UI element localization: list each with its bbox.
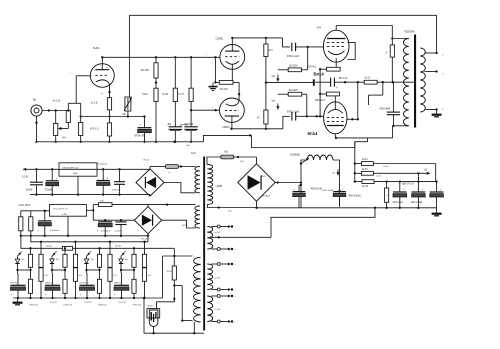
wire bridge right [275,181,301,183]
svg-text:ПФР4-43: ПФР4-43 [98,304,107,307]
diode VD13 cell3 [84,250,91,270]
rail row2 top [21,210,50,212]
svg-text:ПФР4-43: ПФР4-43 [64,304,73,307]
svg-text:ЬСиП: ЬСиП [115,246,121,248]
resistor R42 cell2 [73,241,77,268]
svg-text:4700мкФ: 4700мкФ [50,229,59,232]
capacitor C23 cell2 [45,270,60,299]
label cell2 [50,302,73,306]
label heater 3 [215,309,221,311]
bottom rail [144,332,204,334]
label texture 3 [240,161,245,163]
capacitor C10 filter [293,184,322,208]
svg-text:ФП9-0,1мФ: ФП9-0,1мФ [287,110,299,113]
wire t2 bottom [193,322,195,333]
wire C6 to grid [296,115,324,117]
wire V3 plate node [232,128,283,130]
svg-text:Бп14: Бп14 [314,72,325,77]
terminal row 2 [211,248,233,251]
svg-text:470к: 470к [167,271,171,273]
svg-text:51к: 51к [22,259,25,261]
svg-text:2к-4б: 2к-4б [362,169,368,171]
svg-text:1к: 1к [125,285,127,287]
svg-text:470мкФ: 470мкФ [45,188,53,191]
svg-text:R6-1Мк: R6-1Мк [141,69,150,72]
svg-text:1к-1,8: 1к-1,8 [91,102,98,105]
svg-text:4700мкФ: 4700мкФ [101,230,110,233]
wire tail to V3 cathode [233,82,240,95]
svg-text:2к: 2к [386,51,388,53]
label texture 8 [235,226,237,323]
wire 220V bottom [207,186,256,209]
pot wiper arrow [58,123,68,131]
svg-text:2С10ТК: 2С10ТК [84,302,92,304]
wire aux vert [173,248,175,266]
resistor R28 series [46,246,73,250]
rail row2 bottom [21,235,149,237]
T2 heater winding 3 [207,296,212,322]
resistor R17 cathode [307,67,340,71]
wire right edge down [435,164,437,182]
wire plate rail [102,56,219,58]
wire secondary tap3 [425,108,438,110]
wire choke left [301,160,307,164]
DA2 ground pin [67,216,69,237]
diode VD12 cell2 [50,250,57,270]
capacitor C9 [380,82,401,127]
bias feed arrow 2 [272,94,289,109]
svg-text:400У31АВ: 400У31АВ [311,187,322,190]
switch arrow [301,158,309,165]
wire R22 arrow +V [373,169,430,175]
wire bus lower [251,135,367,147]
V4 plate wire [336,26,392,31]
bias cells bottom rail [13,297,163,299]
svg-text:4000-4МФ: 4000-4МФ [380,107,391,110]
ground rail PSU [255,207,436,209]
label 6p14 upper [314,72,325,77]
V5 plate wire [335,134,337,139]
label texture 5 [322,189,334,192]
svg-text:М3Л-9к-4: М3Л-9к-4 [315,100,326,102]
wire R21 right long [373,163,435,165]
resistor R13 [264,38,274,57]
transformer T2 core [203,157,205,331]
svg-text:51к: 51к [91,259,94,261]
capacitor C3 decoupling [168,124,183,143]
capacitor C22 cell1 [11,270,26,299]
svg-text:Чф: Чф [272,99,276,102]
wire bridge2 bottom [147,234,149,242]
resistor R29 aux [167,266,176,286]
IC DA2 regulator [50,204,87,216]
svg-text:ф: ф [21,250,23,253]
trimmer RP1 [123,97,132,117]
label row2 [19,205,32,207]
label texture 2 [376,175,382,177]
svg-text:ФП9-0,1мФ: ФП9-0,1мФ [287,55,299,58]
resistor R33 cell1 [22,279,33,299]
capacitor C24 cell3 [80,270,95,299]
resistor R7b [162,57,178,101]
label texture 7 [442,55,444,111]
resistor R22 dropper [361,169,373,175]
svg-text:2С10ТК: 2С10ТК [50,302,58,304]
wire winding bottom [182,320,192,322]
wire R14 right up [302,47,308,70]
V4 cathode wire [335,58,337,67]
resistor R26 [29,211,33,237]
label cell4 [119,302,142,306]
svg-text:ВО65ШЕ: ВО65ШЕ [291,154,301,156]
V4 g3 strap [348,43,356,60]
wire bridge2 right [162,220,196,228]
diode VD14 cell4 [119,250,126,270]
diode VD11 cell1 [15,250,22,270]
bridge rectifier VD2 [134,207,161,241]
capacitor C25 cell4 [114,270,129,299]
rail row1 top [29,168,150,170]
svg-text:2к-4б: 2к-4б [376,175,382,177]
ground bus [37,141,204,143]
svg-text:ФП34х7б: ФП34х7б [135,135,145,138]
svg-text:ПФ474: ПФ474 [45,281,52,284]
resistor R27 [93,200,148,206]
wire secondary tap1 [425,52,438,54]
resistor R44 cell3 [108,241,112,268]
transformer T1 secondary [420,48,425,112]
T2 left winding upper [195,167,200,193]
svg-text:ЛАМПА9: ЛАМПА9 [179,124,189,127]
resistor R47 cell4 [142,267,151,299]
label texture 1 [383,166,389,168]
wire input to grid network [42,109,68,111]
wire coupling jog upper [283,38,290,47]
pentode V4 6p14 [317,27,349,62]
svg-text:С3М91: С3М91 [222,126,230,129]
resistor R6 plate load [141,57,158,78]
capacitor C13 [411,182,425,209]
svg-text:51к: 51к [56,259,59,261]
svg-text:ф: ф [124,250,126,253]
svg-text:4-4700мкФ: 4-4700мкФ [96,162,107,165]
wire V2 plate node [232,37,282,39]
ground symbol PSU [432,208,442,216]
transformer T1 primary [403,39,408,126]
capacitor C15 [26,169,44,195]
label cell1 [15,302,38,306]
svg-text:1 к: 1 к [168,172,171,174]
svg-text:ПФР4-43: ПФР4-43 [29,304,38,307]
svg-text:1к: 1к [22,285,24,287]
resistor R37 cell3 [91,279,102,299]
V1 cathode wire [101,91,111,98]
capacitor C8 snubber [369,82,383,105]
resistor R40 cell1 [39,241,43,268]
V2 cathode wire [231,64,233,84]
transformer T1 label [404,31,414,34]
svg-text:ТВЗ209М: ТВЗ209М [404,31,414,34]
resistor R3 [79,103,83,143]
wire bridge1 bottom [149,195,151,197]
svg-text:1к: 1к [56,285,58,287]
V4 grid wire stub [326,42,327,44]
capacitor C20 elec [97,222,112,237]
terminal heater center tap [211,207,376,239]
label heater 1 [215,232,221,234]
svg-text:2и-4б: 2и-4б [362,186,369,188]
svg-text:7к-7б: 7к-7б [178,93,185,96]
wire screen dropper vert [354,142,356,183]
svg-text:а,3-В: а,3-В [215,278,221,280]
T2 heater winding 2 [207,264,212,290]
wire bridge1 top [149,167,151,169]
capacitor C14 [402,182,443,208]
DA2 right pin [86,209,94,211]
capacitor C19 elec [38,210,60,237]
svg-text:4,7к: 4,7к [44,275,48,277]
wire to ground rail [155,102,157,143]
bias rail A [31,236,148,242]
svg-text:4МУ-63ЦЕ: 4МУ-63ЦЕ [411,202,423,204]
resistor R21 dropper [361,159,373,166]
capacitor C6 coupling [287,110,299,120]
triode V2 [216,37,245,69]
wire cell ground drop [143,297,145,333]
svg-text:100пФ: 100пФ [26,188,33,191]
svg-text:7к-1М: 7к-1М [162,93,169,96]
wire cathode bus vert [319,69,321,117]
V5 cathode wire [334,96,336,110]
wire grid ground node [214,57,219,83]
wire R13 down [265,57,267,111]
screen feed wire [357,82,359,119]
wire R7c down [190,102,192,127]
resistor R34 cell2 [56,247,67,279]
V2 plate wire [231,37,237,52]
wire fuse to winding [207,157,221,165]
wire cell2 node [51,269,66,271]
wire R16 right down [302,94,307,116]
ground symbol splitter [209,82,218,90]
svg-text:с: с [326,42,327,44]
wire NFB takeoff [436,15,438,53]
capacitor C16 elec [45,169,59,195]
arrow 6.3V out [22,168,29,179]
T2 left winding lower [194,257,201,322]
bridge rectifier VD5 [238,164,275,201]
resistor R18 cathode [315,92,339,102]
svg-text:6Н9С: 6Н9С [93,46,100,50]
resistor R25 [19,211,23,237]
V1 plate wire [101,56,103,70]
wire secondary tap2 [425,70,438,72]
resistor R46 cell4 [142,241,146,268]
terminal row 1 [211,225,233,228]
svg-text:51к: 51к [125,259,128,261]
svg-text:Пр2: Пр2 [224,152,229,154]
wire R6 junction [155,78,157,88]
wire B+ mid from R13 [266,82,313,84]
wire C5 to grid [296,46,324,48]
wire bridge2 top [147,205,149,207]
wire R21 left [355,163,362,165]
terminal row 6 [211,320,233,323]
capacitor C2 cathode bypass [135,117,152,143]
wire R23 left [355,181,362,183]
tube VL6 indicator [149,310,158,327]
svg-text:СЛ7-3 1КГУ 1,0: СЛ7-3 1КГУ 1,0 [53,209,68,211]
svg-text:ПФ474: ПФ474 [80,281,87,284]
label heater 2 [215,278,221,280]
terminal row 3 [211,263,233,266]
svg-text:ф: ф [55,250,57,253]
svg-text:ПФР4-43: ПФР4-43 [133,304,142,307]
wire cell3 node [85,269,100,271]
svg-text:ЬМВ: ЬМВ [73,173,78,175]
svg-text:4МУ-10р1: 4МУ-10р1 [393,202,404,204]
capacitor C11 filter [333,187,361,207]
terminal row 5 [211,295,233,298]
resistor R36 cell3 [91,247,102,279]
lamp box [147,305,160,318]
resistor R14 grid leak [288,66,301,72]
wire bridge bottom [256,201,258,208]
IC DA1 regulator [59,163,97,176]
capacitor C17 elec [96,162,110,195]
input connector X1 [31,98,42,117]
wire fuse2 to winding [148,203,196,205]
wire center tap [377,81,414,83]
svg-text:ФП-0,1С: ФП-0,1С [339,77,348,80]
resistor R45 cell3 [108,267,117,299]
capacitor C18 [112,169,125,195]
triode V3 [220,94,245,129]
resistor R38 cell4 [125,247,136,279]
resistor R39 cell4 [125,279,136,299]
svg-text:2к-1,2к: 2к-1,2к [53,100,62,103]
svg-text:№ПЛ: №ПЛ [182,224,188,227]
capacitor C5 coupling [287,43,299,59]
bias feed arrow 1 [272,70,289,82]
wire node right of DA2 [92,205,94,221]
V3 plate wire [230,116,232,130]
svg-text:4,7к: 4,7к [79,275,83,277]
wire bus jog [203,134,251,142]
svg-text:6П4: 6П4 [317,27,322,29]
svg-text:С3М91: С3М91 [216,37,224,40]
svg-text:6п14: 6п14 [308,131,319,136]
svg-text:400У-31АВ: 400У-31АВ [322,189,334,192]
choke L1 [291,154,334,160]
wire input shield down [35,116,37,143]
rail row1 bottom [30,194,150,196]
resistor R41 cell1 [39,267,48,299]
svg-text:а,3-В: а,3-В [215,232,221,234]
resistor R7c [178,57,193,101]
wire cathode bus [81,115,146,117]
ground speaker [432,110,442,117]
wire cells rail riser [162,256,164,298]
wire R23 right [374,180,438,182]
V1 grid wire [70,72,91,103]
V3 grid wire [191,107,219,112]
resistor R19 [386,39,395,84]
svg-text:47б: 47б [269,50,274,52]
wire coupling jog lower [283,116,290,129]
wire V5 plate to primary [336,126,409,138]
svg-text:ЬВУ-УГц-В: ЬВУ-УГц-В [402,184,414,186]
wire bridge top [234,156,257,164]
svg-text:6,3-В: 6,3-В [22,176,28,179]
resistor R24 bleeder [385,182,389,209]
DA1 ground pin [77,176,79,196]
svg-text:5к-1б: 5к-1б [365,77,371,79]
resistor R23 dropper [362,180,374,188]
wire bridge plus node [300,162,302,207]
wire bias to lamp area [163,255,193,257]
svg-text:1М: 1М [62,137,65,140]
svg-text:СЛ41-ЛР1б: СЛ41-ЛР1б [19,205,32,207]
svg-text:ВП-ВЧЛ: ВП-ВЧЛ [262,196,271,198]
svg-text:0,1мкФ: 0,1мкФ [115,230,123,233]
pentode V5 6p14 [308,102,347,136]
wire grid node [67,103,81,111]
bias rail B [21,236,174,249]
capacitor C21 [115,222,127,237]
V5 g strap [347,118,359,120]
svg-text:1,2Д: 1,2Д [62,214,67,216]
wire lamp feed [157,286,176,310]
lamp bottom wire [152,327,154,335]
wire cell1 node [16,269,31,271]
svg-text:ПФ474: ПФ474 [114,281,121,284]
svg-text:Чф: Чф [272,75,276,78]
capacitor C4 decoupling [184,123,198,143]
svg-text:ф: ф [90,250,92,253]
arrow +V test [332,169,340,175]
svg-text:470-1,0: 470-1,0 [90,128,99,131]
svg-text:ЬАЛ: ЬАЛ [191,152,196,155]
capacitor C12 [393,182,407,209]
svg-text:СЛ-Р2: СЛ-Р2 [46,246,53,248]
wire aux jog [173,284,183,321]
resistor R35 cell2 [56,279,67,299]
wire V4 plate to primary [391,26,409,40]
T2 heater winding 1 [207,227,212,250]
label texture 6 [228,211,233,213]
wire R18 left [320,93,326,95]
wire R17 left [319,68,327,70]
wire bridge1 right [164,183,196,193]
resistor R20 NFB [364,77,377,84]
svg-text:1к: 1к [101,93,103,95]
resistor R4 cathode [91,98,112,110]
svg-text:1М-220б: 1М-220б [289,90,299,92]
label lampa [179,124,189,127]
wire R22 left [355,172,362,174]
label texture 9 [186,145,191,147]
svg-text:4,7к: 4,7к [113,275,117,277]
ground bias [13,298,23,305]
label cell3 [84,302,107,306]
resistor R12 tail [219,81,233,91]
fuse FU2 [221,152,234,159]
V2 grid label [206,54,208,56]
svg-text:ВЕСА КМРМ 1,25: ВЕСА КМРМ 1,25 [63,166,80,169]
potentiometer R1 1M [54,111,66,143]
svg-text:+: + [139,122,141,126]
